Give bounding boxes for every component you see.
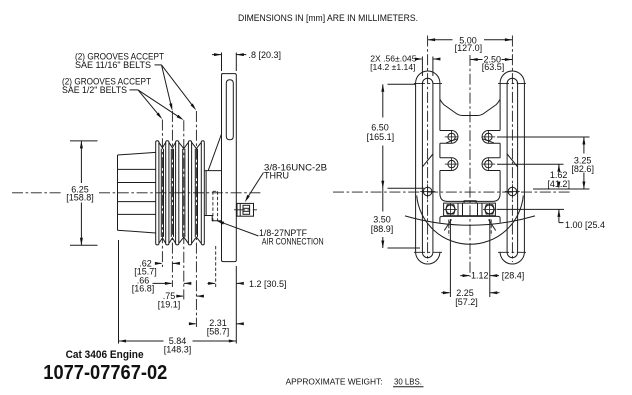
right slotted arm outer outline [500,71,524,264]
svg-text:[57.2]: [57.2] [455,297,478,307]
svg-text:[127.0]: [127.0] [455,43,483,53]
fitting centerline [234,209,257,211]
centerline left arm [427,36,429,263]
svg-text:SAE 11/16" BELTS: SAE 11/16" BELTS [75,60,151,70]
groove centerline G3 [183,120,185,299]
svg-text:[28.4]: [28.4] [502,271,525,281]
svg-text:1.00 [25.4: 1.00 [25.4 [565,220,605,230]
bolt hole B1 [482,130,496,143]
pulley outline circle (lower arc) [417,195,524,244]
pulley groove outline [156,141,205,245]
svg-text:[165.1]: [165.1] [367,132,395,142]
svg-text:SAE 1/2" BELTS: SAE 1/2" BELTS [62,85,127,95]
note 1/8-27NPTF AIR CONNECTION [217,221,324,247]
dimension .62 [15.7] [134,258,180,276]
leader SAE 11/16 belts B [162,65,197,111]
svg-text:[41.2]: [41.2] [547,179,570,189]
extension line arm-right-face [235,266,237,344]
hub left face [117,155,119,230]
right arm slot [507,78,517,257]
dimension 6.25 [158.8] [66,141,97,245]
arm hole right [505,184,520,198]
pulley circle arc through pocket B1 [482,139,494,143]
note: grooves accept SAE 1/2 belts [62,77,151,96]
chamfer line left [444,220,451,231]
bolt bar center tab [464,201,476,203]
belt arc [405,216,535,225]
left arm slot [422,78,433,257]
pulley groove wall lines [159,143,201,244]
fitting 3/8-16UNC-2B [237,203,254,216]
dimension 1.2 [30.5] [208,279,287,289]
right pocket slot 1 [482,131,500,144]
svg-text:[14.2 ±1.14]: [14.2 ±1.14] [370,62,415,72]
chamfer line right [489,220,496,231]
svg-text:[16.8]: [16.8] [132,284,155,294]
centerline: right view vertical axis [469,55,471,277]
dimension .8 [20.3] [212,50,281,71]
leader SAE 1/2 belts A [138,90,162,119]
dimension 2.50 [63.5] [470,55,512,72]
bolt hole A1 [445,130,459,143]
svg-text:[148.3]: [148.3] [164,344,192,354]
left pocket slot 2 [440,158,458,171]
step face [205,171,207,216]
svg-text:[88.9]: [88.9] [371,224,394,234]
dimension 2X .56 [14.2] [370,54,440,76]
svg-text:[63.5]: [63.5] [482,62,505,72]
step top line [204,170,221,172]
hub step lines [118,169,156,214]
svg-text:1077-07767-02: 1077-07767-02 [43,361,167,384]
svg-text:[58.7]: [58.7] [207,326,230,336]
cone line [208,134,221,171]
svg-text:THRU: THRU [264,171,289,181]
centerline: right view horizontal axis [333,191,570,193]
svg-text:[158.8]: [158.8] [66,193,94,203]
groove centerline G4 [195,111,197,327]
hub bottom edge [118,230,156,233]
leader SAE 1/2 belts B [138,90,184,120]
svg-text:1.2 [30.5]: 1.2 [30.5] [249,279,287,289]
dimension 2.25 [57.2] [441,288,499,307]
right pocket slot 2 [482,158,500,171]
svg-text:DIMENSIONS IN [mm] ARE IN MILL: DIMENSIONS IN [mm] ARE IN MILLIMETERS. [238,13,418,23]
dimension 2.31 [58.7] [189,318,244,336]
dimension 1.62 [41.2] [497,164,570,189]
lower boss edges [440,216,500,222]
hidden air passage (dashed) [213,191,218,221]
groove centerline G2 [171,111,173,287]
bracket arm slot (side view) [226,80,233,140]
hub top edge [118,152,156,155]
saddle curve [440,99,500,115]
step bottom jog [204,216,221,221]
svg-text:APPROXIMATE WEIGHT:: APPROXIMATE WEIGHT: [286,377,383,387]
pulley circle upper-right arc (through slot) [507,154,517,167]
pulley circle arc through pocket A1 [446,139,458,143]
hidden lines below bar [449,220,491,237]
extension line step (dashed) [215,246,217,287]
bolt right [483,203,496,215]
centerline right arm [511,36,513,263]
leader SAE 11/16 belts A [162,65,173,111]
dimension 1.12 [28.4] [450,219,524,297]
dimension 5.00 [127.0] [428,35,513,53]
svg-text:Cat 3406 Engine: Cat 3406 Engine [66,349,144,361]
bolt bar divisions [458,203,482,216]
svg-text:1.12: 1.12 [471,271,489,281]
dimension 3.25 [82.6] [497,137,594,189]
dimension .66 [16.8] [132,275,192,293]
extension line hub-left [118,240,120,344]
pulley circle upper-left arc (through slot) [422,154,433,167]
dimension 6.50 [165.1] and 3.50 [88.9] [367,84,424,248]
bolt hole B2 [482,158,496,171]
bolt hole A2 [445,158,459,171]
left slotted arm outer outline [416,71,440,264]
bracket arm side-view outer [222,74,237,262]
leader dash 1/2 note [130,89,139,91]
groove centerline G1 [161,120,163,268]
note: grooves accept SAE 11/16 belts [75,51,164,70]
dimension 5.84 [148.3] [119,336,237,355]
body bottom edge [440,194,500,202]
slot end tick marks [414,83,526,252]
dimension .75 [19.1] [158,291,204,309]
svg-text:[82.6]: [82.6] [571,164,594,174]
svg-text:.8 [20.3]: .8 [20.3] [249,50,282,60]
svg-text:30 LBS.: 30 LBS. [394,377,422,387]
centerline: left view horizontal axis [12,192,262,194]
bolt left [444,203,457,215]
note 3/8-16UNC-2B THRU [245,163,327,203]
arm hole left [420,184,435,198]
left pocket slot 1 [440,131,458,144]
dimension 1.00 [25.4 [497,209,606,230]
footer approximate weight [286,377,424,387]
leader dash 11/16 note [155,64,162,66]
svg-text:[19.1]: [19.1] [158,300,181,310]
svg-text:AIR CONNECTION: AIR CONNECTION [262,237,324,247]
bolt bar [444,203,496,216]
